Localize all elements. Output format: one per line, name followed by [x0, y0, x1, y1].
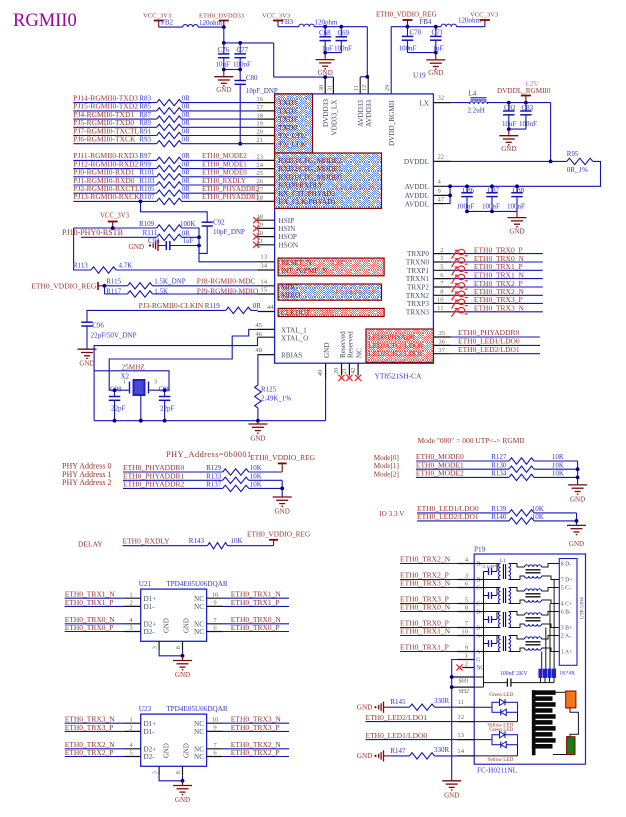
svg-text:1uF: 1uF — [322, 45, 333, 53]
svg-text:R133: R133 — [206, 472, 222, 480]
pin 22 DVDDL — [404, 153, 451, 166]
svg-text:TRXP0: TRXP0 — [407, 250, 429, 258]
svg-text:AVDDL: AVDDL — [405, 192, 429, 200]
svg-text:45: 45 — [255, 322, 262, 329]
svg-text:YT8521SH-CA: YT8521SH-CA — [375, 372, 422, 381]
wire secondary tap group C — [549, 604, 551, 670]
wire gnd rail left up — [93, 371, 95, 421]
wire ETH0_TRX3_P left U23 — [65, 723, 125, 732]
svg-text:INT_N/PME_N: INT_N/PME_N — [281, 267, 328, 275]
svg-text:10: 10 — [212, 716, 219, 723]
power VCC_3V3 (reset) — [100, 213, 130, 229]
wire ETH0_TRX3_N — [451, 304, 543, 313]
svg-text:22pF: 22pF — [111, 405, 126, 413]
wire ETH0_LED2/LDO1 — [451, 345, 540, 354]
svg-text:ETH0_LED2/LDO1: ETH0_LED2/LDO1 — [366, 713, 428, 722]
resistor R101 0R row RX pin 25 — [73, 168, 257, 180]
pin 11 P19 led — [457, 699, 474, 707]
resistor R139 10K ETH0_LED1/LDO0 — [417, 504, 577, 516]
resistor R130 10K ETH0_MODE1 — [374, 460, 578, 472]
RJ45 jack graphic — [532, 690, 579, 755]
resistor R107 0R row RX pin 28 — [73, 192, 259, 204]
svg-text:HSON: HSON — [279, 241, 299, 249]
wire ETH0_TRX0_P right U21 — [223, 623, 289, 632]
svg-text:R101: R101 — [139, 169, 155, 177]
svg-text:1.5/1.8/2.5/3.3V: 1.5/1.8/2.5/3.3V — [335, 184, 377, 191]
svg-text:C77: C77 — [237, 46, 249, 54]
svg-text:TX_CLK: TX_CLK — [279, 140, 307, 148]
pin 8 TRXN2 — [406, 289, 451, 300]
svg-text:R113: R113 — [73, 262, 88, 270]
resistor R147 330R — [390, 746, 457, 759]
svg-text:NC: NC — [194, 753, 204, 761]
wire gnd tie U23 — [159, 775, 182, 781]
wire ETH0_TRX1_N left U21 — [65, 590, 125, 599]
svg-text:47: 47 — [438, 196, 445, 203]
svg-text:XTAL_O: XTAL_O — [281, 334, 308, 342]
ground GND under C76 — [223, 70, 225, 77]
svg-text:46: 46 — [255, 331, 262, 338]
svg-text:GND: GND — [175, 796, 190, 804]
svg-text:1 A+: 1 A+ — [561, 650, 572, 656]
pin 34 INT_N/PME_N — [258, 262, 329, 275]
wire gnd tie U21 — [159, 650, 182, 656]
svg-text:32: 32 — [438, 95, 445, 102]
svg-text:SH1: SH1 — [459, 679, 469, 685]
pin 11 TRXN3 — [406, 305, 451, 316]
pin 2 TRXP0 — [407, 247, 451, 258]
svg-text:TXD1: TXD1 — [279, 116, 298, 124]
power ETH0_VDDIO_REG (delay) — [247, 529, 311, 545]
resistor R140 10K ETH0_LED2/LDO1 — [417, 512, 577, 524]
LED pair green/yellow — [474, 692, 517, 729]
svg-text:GND: GND — [164, 743, 171, 758]
ESD diode array U21 TPD4E05U06DQAR — [139, 580, 228, 641]
svg-text:ETH0_TRX0_P: ETH0_TRX0_P — [231, 623, 280, 632]
svg-text:ETH0_VDDIO_REG: ETH0_VDDIO_REG — [250, 453, 316, 462]
pin 4 D2+ U23 — [125, 742, 157, 753]
wire ETH0_TRX0_N — [451, 254, 543, 263]
wire ETH0_LED2/LDO1 to P19 — [366, 713, 458, 722]
svg-text:7 D+: 7 D+ — [561, 578, 573, 584]
svg-text:MDIO: MDIO — [281, 292, 300, 300]
svg-text:0R: 0R — [182, 185, 191, 193]
svg-text:TXD0: TXD0 — [279, 124, 298, 132]
pin 49 GND bottom — [317, 342, 331, 420]
ground GND under C96 — [78, 348, 97, 350]
pin 29 DVDD_RGMII — [384, 85, 396, 146]
wire ETH0_TRX1_P left U21 — [65, 598, 125, 607]
choke L group B — [509, 612, 560, 628]
power ETH0_VDDIO_REG (phyaddr) — [250, 453, 316, 472]
pin 40 HSOP no-connect — [253, 230, 297, 241]
ground GND AVDDL caps — [508, 211, 527, 235]
pin 30 DVDD33 — [318, 77, 330, 127]
transformer T2 P19 group C — [474, 588, 510, 604]
svg-text:ETH0_TRX2_N: ETH0_TRX2_N — [400, 555, 451, 564]
svg-text:10K: 10K — [552, 453, 564, 461]
svg-text:DVDDL: DVDDL — [404, 158, 429, 166]
wire analog gnd rail — [94, 420, 326, 422]
svg-text:36: 36 — [438, 339, 445, 346]
svg-text:10K: 10K — [250, 480, 262, 488]
svg-text:1uF: 1uF — [433, 45, 444, 53]
svg-text:PJ10-PHY0-RSTB: PJ10-PHY0-RSTB — [62, 228, 123, 237]
svg-text:0R_1%: 0R_1% — [567, 166, 588, 174]
junction ETH0_DVDD33 — [222, 25, 226, 29]
svg-text:R99: R99 — [139, 160, 151, 168]
pin 1 G P19 — [457, 653, 480, 664]
svg-text:0R: 0R — [253, 302, 262, 310]
svg-text:TRXP3: TRXP3 — [407, 300, 429, 308]
hatched box RESET — [278, 258, 384, 276]
svg-text:10K: 10K — [552, 470, 564, 478]
svg-text:Mode[1]: Mode[1] — [374, 462, 399, 470]
svg-text:A+: A+ — [476, 650, 483, 656]
LED orange indicator — [566, 691, 576, 708]
svg-text:D1-: D1- — [144, 728, 156, 736]
svg-text:100nF: 100nF — [482, 203, 500, 211]
wire FB3 to AVDD33 rail — [314, 26, 367, 28]
svg-text:ETH0_TRX2_P: ETH0_TRX2_P — [65, 748, 114, 757]
resistor R125 2.49K_1% — [255, 355, 292, 421]
wire ETH0_TRX0_P to P19 — [400, 619, 457, 628]
svg-text:R109: R109 — [139, 220, 155, 228]
pin 42 NC bottom — [350, 348, 364, 381]
svg-text:R115: R115 — [106, 278, 121, 286]
pin 7 NC U21 — [194, 617, 223, 628]
capacitor C71 1uF — [430, 25, 444, 53]
svg-text:PJ13-RGMII0-RXCK: PJ13-RGMII0-RXCK — [73, 192, 140, 201]
svg-text:C96: C96 — [92, 322, 104, 330]
svg-text:C94: C94 — [148, 237, 160, 245]
svg-text:C71: C71 — [432, 29, 444, 37]
capacitor 100nF 2KV — [484, 671, 555, 687]
pin 5 D2- U21 — [125, 625, 156, 636]
wire ETH0_TRX3_P right U23 — [223, 723, 289, 732]
svg-text:GND: GND — [570, 496, 585, 504]
svg-text:PJ9-RGMII0-MDIO: PJ9-RGMII0-MDIO — [197, 287, 259, 296]
svg-text:PHY Address 2: PHY Address 2 — [62, 478, 111, 487]
svg-text:GND: GND — [357, 752, 373, 760]
pin 5 TRXP1 — [407, 264, 451, 275]
svg-text:0R: 0R — [182, 94, 191, 102]
svg-text:NC: NC — [194, 720, 204, 728]
pin 21 TX_CLK — [256, 137, 306, 148]
wire ETH0_LED1/LDO0 — [451, 337, 540, 346]
differential pair marker ETH0_TRX0_N — [452, 258, 468, 267]
wire ETH0_TRX2_P — [451, 279, 543, 288]
svg-text:SH2: SH2 — [459, 689, 469, 695]
resistor R113 4.7K — [73, 228, 258, 273]
resistor R91 0R row TX pin 20 — [73, 126, 257, 138]
wire LX to L4 — [451, 102, 470, 104]
svg-text:ETH0_DVDD33: ETH0_DVDD33 — [199, 13, 245, 20]
wire ETH0_TRX1_P right U21 — [223, 598, 289, 607]
power VCC_3V3 (middle) — [262, 13, 291, 27]
svg-text:Green LED: Green LED — [489, 727, 513, 733]
svg-text:RXD3/CFG_MODE2: RXD3/CFG_MODE2 — [279, 157, 343, 165]
svg-text:22: 22 — [438, 153, 445, 160]
svg-text:3.3V: 3.3V — [320, 310, 333, 317]
wire io pulldown — [576, 513, 578, 526]
svg-text:34: 34 — [260, 262, 267, 269]
svg-text:HSOP: HSOP — [279, 233, 297, 241]
junction RXCK to C92 — [139, 200, 143, 204]
svg-text:U21: U21 — [139, 580, 152, 588]
wire VCC row — [74, 227, 157, 229]
svg-text:ETH0_MODE2: ETH0_MODE2 — [202, 152, 247, 160]
pin 10 TRXP3 — [407, 297, 451, 308]
svg-text:100nF 2KV: 100nF 2KV — [500, 671, 528, 677]
pin 9 NC U23 — [194, 725, 223, 736]
svg-text:Reserved: Reserved — [347, 331, 355, 358]
wire AVDD33 riser — [366, 27, 368, 77]
wire ETH0_TRX1_N to P19 — [400, 627, 457, 636]
svg-text:RXD0/RXDLY: RXD0/RXDLY — [279, 182, 325, 190]
pin 44 CLKOUT — [258, 304, 334, 317]
resistor R119 0R clkin — [87, 301, 261, 322]
wire ETH0_TRX2_P to P19 — [400, 571, 457, 580]
svg-text:DVDD_RGMII: DVDD_RGMII — [388, 100, 396, 146]
svg-text:NC: NC — [194, 728, 204, 736]
svg-text:PJ8-RGMII0-MDC: PJ8-RGMII0-MDC — [197, 277, 256, 286]
capacitor C98 22pF — [109, 386, 126, 421]
pin 4 D- P19 — [457, 557, 482, 568]
svg-text:1: 1 — [465, 653, 468, 660]
svg-text:P19: P19 — [474, 546, 486, 554]
junction node C94 — [197, 244, 201, 248]
svg-text:0R: 0R — [182, 103, 191, 111]
transformer T3 P19 group B — [474, 612, 510, 628]
svg-text:0R: 0R — [182, 136, 191, 144]
pin 41 HSON no-connect — [253, 238, 299, 249]
svg-text:R93: R93 — [139, 136, 151, 144]
pin 25 RXD1/CFG_MODE0 — [256, 170, 342, 181]
svg-text:R140: R140 — [491, 513, 507, 521]
svg-text:GND: GND — [428, 69, 443, 77]
wire node to pin13 — [199, 237, 258, 261]
ground GND under C68 — [324, 53, 326, 60]
wire ETH0_TRX2_N — [451, 287, 543, 296]
ground GND phyaddr — [273, 496, 292, 498]
wire G SH1 SH2 to gnd — [452, 660, 457, 781]
svg-text:2: 2 — [129, 725, 132, 732]
svg-text:GND: GND — [569, 540, 584, 548]
ferrite bead FB2 — [161, 18, 223, 27]
svg-text:14: 14 — [457, 748, 464, 755]
IC U19 YT8521SH-CA body — [275, 94, 434, 363]
pin 45 XTAL_1 — [255, 322, 307, 335]
svg-text:0R: 0R — [182, 193, 191, 201]
crystal X2 25MHZ — [121, 364, 158, 421]
wire R109 to node — [182, 228, 199, 237]
svg-text:ETH0_TRX0_N: ETH0_TRX0_N — [400, 603, 451, 612]
resistor R95 0R_1% — [450, 150, 600, 186]
svg-text:1uF: 1uF — [183, 237, 194, 245]
wire secondary tap group A — [541, 652, 543, 670]
pin 17 TXD2 — [256, 104, 297, 115]
capacitor center tap group D — [484, 564, 498, 575]
ground GND U21 — [173, 656, 192, 679]
svg-text:IO 3.3 V: IO 3.3 V — [379, 510, 405, 518]
pin 2 D1- U23 — [125, 725, 156, 736]
inductor L4 2.2uH — [468, 90, 488, 115]
svg-text:TPD4E05U06DQAR: TPD4E05U06DQAR — [166, 580, 228, 588]
wire secondary tap group D — [553, 580, 555, 670]
wire mode pulldown — [577, 461, 579, 485]
hatched box LED pins — [366, 329, 433, 362]
svg-text:ETH0_MODE1: ETH0_MODE1 — [202, 160, 247, 168]
svg-text:ETH0_MODE2: ETH0_MODE2 — [416, 469, 464, 478]
pin 48 RBIAS — [255, 347, 302, 360]
svg-text:ETH0_VDDIO_REG: ETH0_VDDIO_REG — [31, 281, 97, 290]
svg-text:GND: GND — [175, 671, 190, 679]
ground GND R145 — [357, 702, 392, 713]
wire VCC_3V3 to FB2 — [159, 26, 183, 28]
svg-text:1: 1 — [129, 591, 132, 598]
svg-text:D1+: D1+ — [144, 720, 157, 728]
svg-text:25: 25 — [256, 170, 263, 177]
svg-text:8: 8 — [175, 771, 182, 774]
wire ETH0_TRX1_P — [451, 262, 543, 271]
svg-text:31: 31 — [326, 85, 333, 91]
svg-text:R103: R103 — [139, 177, 155, 185]
svg-text:UTP-5/8W: UTP-5/8W — [581, 597, 586, 620]
svg-text:GND: GND — [323, 342, 331, 358]
svg-text:ETH0_TRX2_P: ETH0_TRX2_P — [231, 748, 280, 757]
svg-text:1: 1 — [129, 716, 132, 723]
resistor R93 0R row TX pin 21 — [73, 135, 257, 147]
svg-text:RX_CTL/PHYAD2: RX_CTL/PHYAD2 — [279, 190, 336, 198]
wire C68 C69 bottoms — [325, 52, 341, 54]
hatched box TXD pins — [275, 94, 313, 153]
svg-text:Green LED: Green LED — [489, 692, 513, 698]
pin 3 GND U21 — [152, 641, 160, 650]
text L1 0.1uH*2 — [483, 559, 507, 569]
wire ETH0_TRX0_P left U21 — [65, 623, 125, 632]
svg-text:R89: R89 — [139, 119, 151, 127]
svg-text:C92: C92 — [213, 219, 225, 227]
svg-text:LX: LX — [419, 99, 429, 107]
capacitor C86 100nF — [457, 184, 475, 211]
svg-text:330R: 330R — [434, 746, 450, 754]
svg-text:R143: R143 — [189, 537, 205, 545]
svg-text:RXD2/CFG_MODE1: RXD2/CFG_MODE1 — [279, 165, 343, 173]
choke L group C — [509, 588, 560, 604]
pin 26 RXD0/RXDLY — [256, 178, 324, 189]
pin 8 B- P19 — [457, 605, 482, 616]
svg-text:TRXP1: TRXP1 — [407, 267, 429, 275]
resistor pack 1K*4R — [539, 669, 575, 683]
svg-text:PHY_Address=0b0001: PHY_Address=0b0001 — [166, 450, 252, 459]
ferrite bead FB4 — [420, 16, 482, 26]
power DVDDL_RGMII0 1.2V — [497, 80, 551, 103]
svg-text:FB2: FB2 — [161, 18, 174, 26]
capacitor C82 10uF — [502, 103, 517, 130]
svg-text:11: 11 — [437, 305, 443, 312]
svg-text:R85: R85 — [139, 103, 151, 111]
svg-text:D1-: D1- — [144, 603, 156, 611]
svg-text:TPD4E05U06DQAR: TPD4E05U06DQAR — [166, 705, 228, 713]
wire FB2 to ETH0_DVDD33 node — [198, 26, 224, 28]
capacitor C83 100nF — [519, 103, 537, 130]
svg-text:XTAL_1: XTAL_1 — [281, 326, 307, 334]
svg-text:TXD3: TXD3 — [279, 99, 298, 107]
svg-text:10K: 10K — [532, 513, 544, 521]
wire ETH0_TRX3_N right U23 — [223, 715, 289, 724]
pin 3 GND U23 — [152, 766, 160, 775]
svg-text:L4: L4 — [469, 90, 477, 98]
svg-text:R111: R111 — [143, 229, 158, 237]
svg-text:28: 28 — [256, 195, 263, 202]
wire ETH0_TRX3_N left U23 — [65, 715, 125, 724]
svg-text:ETH0_TRX1_P: ETH0_TRX1_P — [231, 598, 280, 607]
svg-text:AVDD33: AVDD33 — [365, 100, 373, 127]
wire C82 C83 bottoms — [509, 128, 526, 130]
differential pair marker ETH0_TRX3_N — [452, 308, 468, 317]
svg-text:11: 11 — [353, 85, 360, 91]
svg-text:15: 15 — [260, 287, 267, 294]
svg-text:GND: GND — [164, 618, 171, 633]
svg-text:18: 18 — [256, 112, 263, 119]
svg-text:ETH0_TRX3_N: ETH0_TRX3_N — [400, 579, 451, 588]
svg-text:ETH0_TRX3_N: ETH0_TRX3_N — [474, 304, 525, 313]
LED pair green/yellow — [474, 727, 517, 763]
wire L4 to DVDDL rail — [488, 102, 551, 104]
differential pair marker ETH0_TRX0_P — [452, 249, 468, 258]
svg-text:48: 48 — [255, 347, 262, 354]
svg-text:49: 49 — [317, 370, 324, 376]
wire ETH0_DVDD33 down to rail — [223, 27, 225, 43]
resistor R85 0R row TX pin 17 — [73, 102, 257, 114]
pin 15 MDIO — [258, 287, 301, 300]
wire SH tie interior — [474, 676, 483, 678]
junction C80 to TX_CLK — [238, 142, 242, 146]
svg-text:29: 29 — [384, 85, 391, 91]
svg-text:100nF: 100nF — [519, 120, 537, 128]
pin 7 NC U23 — [194, 742, 223, 753]
pin 9 AVDDL — [405, 188, 450, 200]
svg-text:LED0/PHYAD0: LED0/PHYAD0 — [369, 333, 415, 341]
svg-text:3: 3 — [154, 379, 157, 386]
svg-text:GND: GND — [184, 743, 191, 758]
pin 6 NC U23 — [194, 750, 223, 761]
svg-text:D2-: D2- — [144, 753, 156, 761]
pin 6 C- P19 — [457, 581, 482, 592]
resistor R89 0R row TX pin 19 — [73, 118, 257, 130]
svg-text:TX_CTL: TX_CTL — [279, 132, 306, 140]
svg-text:8 D-: 8 D- — [561, 562, 572, 568]
pin 12 P19 led — [457, 714, 474, 722]
pin 31 VDD33_LX — [326, 77, 338, 135]
svg-text:PJ6-RGMII0-TXCK: PJ6-RGMII0-TXCK — [73, 135, 136, 144]
pin 1 D1+ U21 — [125, 591, 157, 602]
svg-text:R134: R134 — [491, 470, 507, 478]
svg-text:10K: 10K — [231, 537, 243, 545]
svg-text:R145: R145 — [390, 698, 406, 706]
pin 38 HSIP no-connect — [253, 213, 294, 224]
svg-text:ETH0_RXDLY: ETH0_RXDLY — [123, 537, 171, 546]
svg-text:10K: 10K — [250, 464, 262, 472]
rotated GND labels U21 — [164, 618, 191, 633]
svg-text:ETH0_MODE0: ETH0_MODE0 — [202, 169, 247, 177]
ground GND R147 — [357, 750, 392, 761]
ground GND under C82 — [499, 129, 518, 153]
wire DVDDL drop to R95 — [550, 103, 552, 162]
pin 9 NC U21 — [194, 600, 223, 611]
svg-text:R105: R105 — [139, 185, 155, 193]
